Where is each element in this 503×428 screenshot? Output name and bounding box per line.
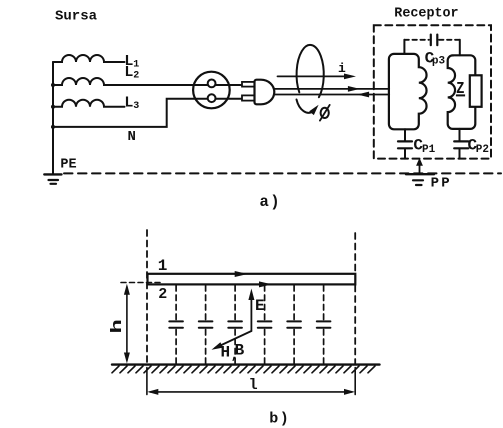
svg-text:3: 3	[133, 101, 139, 112]
svg-text:L: L	[124, 64, 133, 81]
svg-text:P: P	[441, 175, 449, 191]
svg-text:P1: P1	[422, 144, 436, 156]
svg-text:Sursa: Sursa	[55, 9, 98, 25]
svg-text:N: N	[128, 129, 136, 145]
svg-text:2: 2	[158, 286, 167, 303]
svg-text:l: l	[249, 377, 258, 394]
svg-text:P2: P2	[476, 144, 489, 156]
svg-text:E: E	[255, 297, 265, 315]
svg-text:H: H	[221, 343, 231, 361]
svg-text:L: L	[124, 95, 133, 112]
svg-text:Receptor: Receptor	[394, 7, 458, 22]
svg-text:B: B	[235, 341, 245, 359]
svg-text:2: 2	[133, 71, 139, 82]
svg-text:1: 1	[133, 60, 139, 71]
svg-text:P: P	[431, 175, 439, 191]
svg-text:h: h	[109, 319, 126, 333]
svg-text:a): a)	[260, 193, 282, 211]
svg-text:i: i	[338, 61, 346, 76]
svg-text:b): b)	[269, 411, 290, 428]
svg-text:PE: PE	[60, 158, 76, 173]
svg-text:p3: p3	[432, 56, 446, 68]
svg-text:1: 1	[158, 257, 168, 275]
